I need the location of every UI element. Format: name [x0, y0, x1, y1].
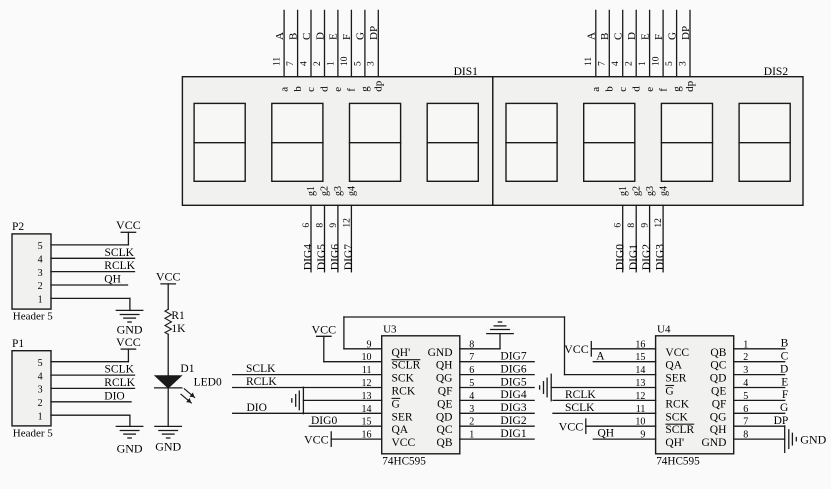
svg-text:B: B — [599, 33, 611, 40]
svg-text:Header 5: Header 5 — [13, 311, 54, 323]
svg-text:SCLK: SCLK — [105, 247, 135, 259]
svg-text:DIO: DIO — [247, 402, 267, 414]
svg-text:1K: 1K — [171, 323, 186, 335]
svg-text:g: g — [671, 86, 683, 92]
svg-text:f: f — [346, 88, 358, 92]
svg-text:b: b — [604, 86, 616, 92]
svg-text:c: c — [617, 87, 629, 92]
svg-text:2: 2 — [38, 398, 43, 409]
svg-text:DP: DP — [368, 26, 380, 40]
svg-text:5: 5 — [38, 241, 43, 252]
svg-text:8: 8 — [627, 223, 637, 228]
svg-text:C: C — [301, 33, 313, 40]
svg-text:1: 1 — [326, 61, 336, 66]
svg-text:VCC: VCC — [564, 342, 589, 356]
svg-text:QE: QE — [437, 398, 452, 410]
svg-text:SCLK: SCLK — [105, 364, 135, 376]
svg-text:QA: QA — [665, 360, 682, 372]
svg-text:DIG6: DIG6 — [500, 363, 526, 375]
svg-text:Header 5: Header 5 — [13, 427, 54, 439]
svg-text:G: G — [392, 398, 400, 410]
svg-text:DIG2: DIG2 — [500, 415, 526, 427]
svg-text:QH': QH' — [665, 437, 684, 449]
svg-text:SCLR: SCLR — [665, 424, 694, 436]
svg-text:dp: dp — [684, 80, 696, 92]
svg-text:3: 3 — [678, 61, 688, 66]
svg-text:E: E — [328, 33, 340, 40]
svg-text:3: 3 — [38, 385, 43, 396]
svg-text:QD: QD — [710, 373, 727, 385]
svg-text:QF: QF — [712, 398, 727, 410]
svg-text:VCC: VCC — [116, 335, 141, 349]
svg-text:8: 8 — [316, 223, 326, 228]
svg-text:4: 4 — [38, 255, 43, 266]
svg-text:RCLK: RCLK — [104, 377, 135, 389]
svg-text:DIG4: DIG4 — [303, 244, 315, 270]
svg-text:74HC595: 74HC595 — [656, 456, 700, 468]
svg-text:G: G — [355, 32, 367, 40]
svg-text:4: 4 — [38, 371, 43, 382]
svg-text:1: 1 — [38, 295, 43, 306]
svg-text:VCC: VCC — [304, 432, 329, 446]
svg-text:5: 5 — [665, 61, 675, 66]
svg-text:9: 9 — [329, 223, 339, 228]
svg-text:DIG3: DIG3 — [655, 244, 667, 270]
svg-text:g2: g2 — [631, 186, 642, 196]
svg-text:QH: QH — [710, 424, 727, 436]
svg-text:SER: SER — [665, 373, 686, 385]
svg-text:QE: QE — [711, 386, 726, 398]
svg-text:e: e — [332, 87, 344, 92]
svg-text:g1: g1 — [306, 186, 317, 196]
svg-text:QG: QG — [710, 411, 727, 423]
svg-text:g3: g3 — [645, 186, 656, 196]
svg-text:G: G — [666, 32, 678, 40]
svg-text:QB: QB — [437, 437, 453, 449]
svg-text:DIO: DIO — [104, 390, 124, 402]
svg-text:QC: QC — [710, 360, 726, 372]
svg-text:F: F — [782, 389, 788, 401]
svg-text:10: 10 — [652, 56, 662, 66]
svg-text:7: 7 — [286, 61, 296, 66]
svg-text:12: 12 — [342, 218, 352, 228]
svg-text:SCK: SCK — [665, 411, 688, 423]
svg-text:VCC: VCC — [559, 419, 584, 433]
svg-text:QB: QB — [710, 347, 726, 359]
svg-text:QH: QH — [598, 428, 615, 440]
svg-text:2: 2 — [38, 281, 43, 292]
svg-text:VCC: VCC — [116, 218, 141, 232]
svg-text:QH: QH — [436, 360, 453, 372]
svg-text:SER: SER — [392, 411, 413, 423]
svg-text:RCLK: RCLK — [104, 260, 135, 272]
svg-text:G: G — [665, 386, 673, 398]
svg-text:F: F — [653, 34, 665, 40]
svg-text:GND: GND — [701, 437, 726, 449]
svg-text:E: E — [639, 33, 651, 40]
svg-text:7: 7 — [598, 61, 608, 66]
svg-text:F: F — [341, 34, 353, 40]
svg-text:4: 4 — [299, 61, 309, 66]
svg-text:SCLK: SCLK — [246, 363, 276, 375]
svg-text:E: E — [781, 376, 788, 388]
svg-text:11: 11 — [584, 57, 594, 66]
svg-text:6: 6 — [614, 223, 624, 228]
svg-text:DIG1: DIG1 — [628, 244, 640, 270]
svg-text:DP: DP — [774, 415, 789, 427]
svg-text:g3: g3 — [333, 186, 344, 196]
svg-text:D: D — [314, 32, 326, 40]
svg-text:c: c — [305, 87, 317, 92]
svg-text:9: 9 — [641, 223, 651, 228]
svg-text:QG: QG — [436, 373, 453, 385]
svg-text:RCLK: RCLK — [246, 376, 277, 388]
svg-text:g2: g2 — [320, 186, 331, 196]
svg-text:DIG7: DIG7 — [500, 351, 526, 363]
svg-text:A: A — [596, 350, 605, 362]
svg-text:1: 1 — [638, 61, 648, 66]
svg-text:RCK: RCK — [392, 386, 416, 398]
svg-text:a: a — [278, 87, 290, 92]
svg-text:QH': QH' — [392, 347, 411, 359]
svg-text:DIG0: DIG0 — [614, 244, 626, 270]
svg-text:12: 12 — [654, 218, 664, 228]
svg-text:f: f — [657, 88, 669, 92]
svg-text:DIG1: DIG1 — [500, 428, 526, 440]
svg-text:U3: U3 — [383, 324, 397, 336]
svg-text:DIG3: DIG3 — [500, 402, 526, 414]
svg-text:a: a — [590, 87, 602, 92]
svg-text:DIG7: DIG7 — [343, 244, 355, 270]
svg-text:dp: dp — [373, 80, 385, 92]
svg-text:10: 10 — [340, 56, 350, 66]
svg-text:QD: QD — [436, 411, 453, 423]
svg-text:B: B — [287, 33, 299, 40]
svg-text:DP: DP — [680, 26, 692, 40]
svg-text:6: 6 — [302, 223, 312, 228]
svg-text:VCC: VCC — [311, 322, 336, 336]
svg-text:g4: g4 — [658, 186, 669, 196]
svg-text:D: D — [626, 32, 638, 40]
svg-text:P1: P1 — [12, 338, 24, 350]
svg-text:DIG6: DIG6 — [330, 244, 342, 270]
svg-text:C: C — [781, 351, 789, 363]
svg-text:DIS1: DIS1 — [454, 66, 479, 78]
svg-text:GND: GND — [117, 441, 143, 455]
svg-text:DIG2: DIG2 — [641, 244, 653, 270]
svg-text:SCLK: SCLK — [565, 402, 595, 414]
svg-text:11: 11 — [273, 57, 283, 66]
svg-text:4: 4 — [611, 61, 621, 66]
svg-text:A: A — [274, 32, 286, 40]
svg-text:74HC595: 74HC595 — [382, 456, 426, 468]
svg-text:D1: D1 — [180, 363, 194, 375]
svg-text:P2: P2 — [12, 221, 24, 233]
svg-text:VCC: VCC — [392, 437, 416, 449]
svg-text:LED0: LED0 — [194, 376, 222, 388]
svg-text:GND: GND — [800, 432, 826, 446]
svg-text:DIG0: DIG0 — [311, 415, 337, 427]
svg-text:DIG4: DIG4 — [500, 389, 526, 401]
svg-text:D: D — [780, 363, 788, 375]
svg-text:R1: R1 — [171, 310, 185, 322]
svg-text:QC: QC — [437, 424, 453, 436]
svg-text:SCLR: SCLR — [392, 360, 421, 372]
svg-text:b: b — [292, 86, 304, 92]
svg-text:1: 1 — [38, 411, 43, 422]
svg-text:g: g — [359, 86, 371, 92]
svg-text:d: d — [630, 86, 642, 92]
svg-text:A: A — [586, 32, 598, 40]
svg-text:e: e — [644, 87, 656, 92]
svg-text:SCK: SCK — [392, 373, 415, 385]
svg-text:VCC: VCC — [665, 347, 689, 359]
svg-text:3: 3 — [367, 61, 377, 66]
svg-text:RCK: RCK — [665, 398, 689, 410]
svg-text:DIG5: DIG5 — [500, 376, 526, 388]
svg-text:G: G — [780, 402, 788, 414]
svg-text:g4: g4 — [347, 186, 358, 196]
svg-text:B: B — [781, 338, 789, 350]
svg-text:2: 2 — [625, 61, 635, 66]
svg-text:d: d — [319, 86, 331, 92]
svg-text:U4: U4 — [657, 324, 671, 336]
svg-text:VCC: VCC — [156, 270, 181, 284]
svg-text:2: 2 — [313, 61, 323, 66]
svg-text:GND: GND — [428, 347, 453, 359]
svg-text:5: 5 — [353, 61, 363, 66]
svg-text:3: 3 — [38, 268, 43, 279]
svg-text:DIG5: DIG5 — [316, 244, 328, 270]
svg-text:DIS2: DIS2 — [764, 66, 789, 78]
svg-text:C: C — [613, 33, 625, 40]
svg-text:QH: QH — [104, 274, 121, 286]
svg-text:g1: g1 — [618, 186, 629, 196]
svg-text:GND: GND — [155, 440, 181, 454]
svg-text:5: 5 — [38, 358, 43, 369]
svg-text:QA: QA — [392, 424, 409, 436]
svg-text:RCLK: RCLK — [565, 389, 596, 401]
svg-text:QF: QF — [438, 386, 453, 398]
